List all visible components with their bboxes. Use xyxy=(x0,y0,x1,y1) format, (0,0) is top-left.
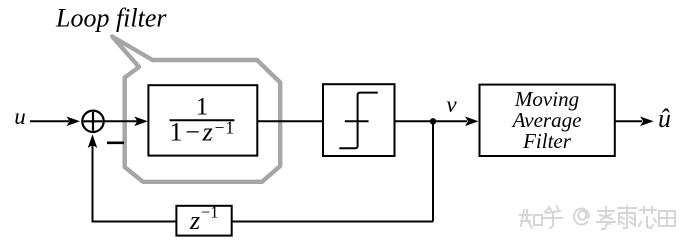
minus sign xyxy=(107,142,124,145)
delay block z^-1 xyxy=(176,206,231,236)
yu xyxy=(618,206,636,228)
MAF block xyxy=(480,85,615,156)
watermark zhihu xyxy=(520,206,675,229)
svg-text:Loop filter: Loop filter xyxy=(55,3,167,32)
xin xyxy=(639,207,656,228)
wire MAF to output xyxy=(615,120,642,122)
ji xyxy=(597,207,615,229)
wire u to summer xyxy=(30,120,69,122)
hu xyxy=(544,206,562,228)
summer S1 xyxy=(82,111,103,132)
svg-text:z: z xyxy=(189,206,200,235)
wire integrator to quantizer xyxy=(257,120,323,122)
feedback wire from delay to summer xyxy=(93,221,177,223)
svg-text:1: 1 xyxy=(196,91,209,120)
loop filter callout bubble xyxy=(112,37,280,182)
feedback wire up into summer xyxy=(92,143,94,223)
wire quantizer to MAF xyxy=(395,120,468,122)
node v junction dot xyxy=(430,118,436,124)
quantizer step symbol xyxy=(339,93,378,149)
feedback wire down from node v xyxy=(432,121,434,221)
tian xyxy=(659,211,675,226)
svg-text:u: u xyxy=(14,104,26,129)
svg-text:Filter: Filter xyxy=(522,129,572,153)
svg-text:v: v xyxy=(446,92,457,117)
integrator block 1/(1-z^-1) xyxy=(148,85,257,155)
feedback wire to delay block xyxy=(232,221,433,223)
zhi xyxy=(520,210,532,228)
quantizer Q xyxy=(323,84,395,156)
svg-text:û: û xyxy=(658,104,671,133)
@ xyxy=(574,209,589,225)
svg-text:−1: −1 xyxy=(201,202,219,221)
wire summer to integrator xyxy=(104,120,137,122)
